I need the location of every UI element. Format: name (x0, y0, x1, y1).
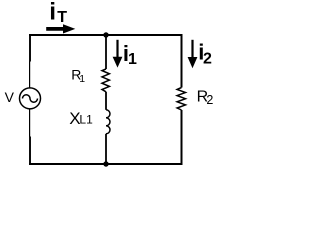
node junction bottom (103, 161, 108, 166)
inductor XL1 (106, 110, 110, 134)
resistor R1 (102, 69, 109, 92)
arrow i2 (191, 40, 193, 59)
wire right upper (181, 34, 183, 88)
svg-text:i: i (49, 0, 56, 26)
svg-text:V: V (5, 89, 15, 105)
svg-text:1: 1 (79, 73, 85, 85)
wire left upper (29, 34, 31, 62)
wire right lower (181, 110, 183, 165)
node junction top (103, 32, 108, 37)
wire top (29, 34, 183, 36)
arrow i1 (116, 40, 118, 58)
wire bottom (29, 163, 183, 165)
wire middle mid (105, 92, 107, 110)
wire left lower (29, 109, 31, 137)
AC source V (20, 88, 41, 109)
svg-text:T: T (57, 9, 67, 26)
wire middle lower (105, 134, 107, 164)
svg-text:L1: L1 (79, 113, 93, 127)
svg-text:2: 2 (206, 93, 213, 107)
arrow IT (46, 27, 64, 31)
svg-text:2: 2 (203, 51, 212, 68)
svg-text:1: 1 (128, 51, 137, 68)
wire middle upper (105, 35, 107, 69)
resistor R2 (177, 88, 185, 111)
